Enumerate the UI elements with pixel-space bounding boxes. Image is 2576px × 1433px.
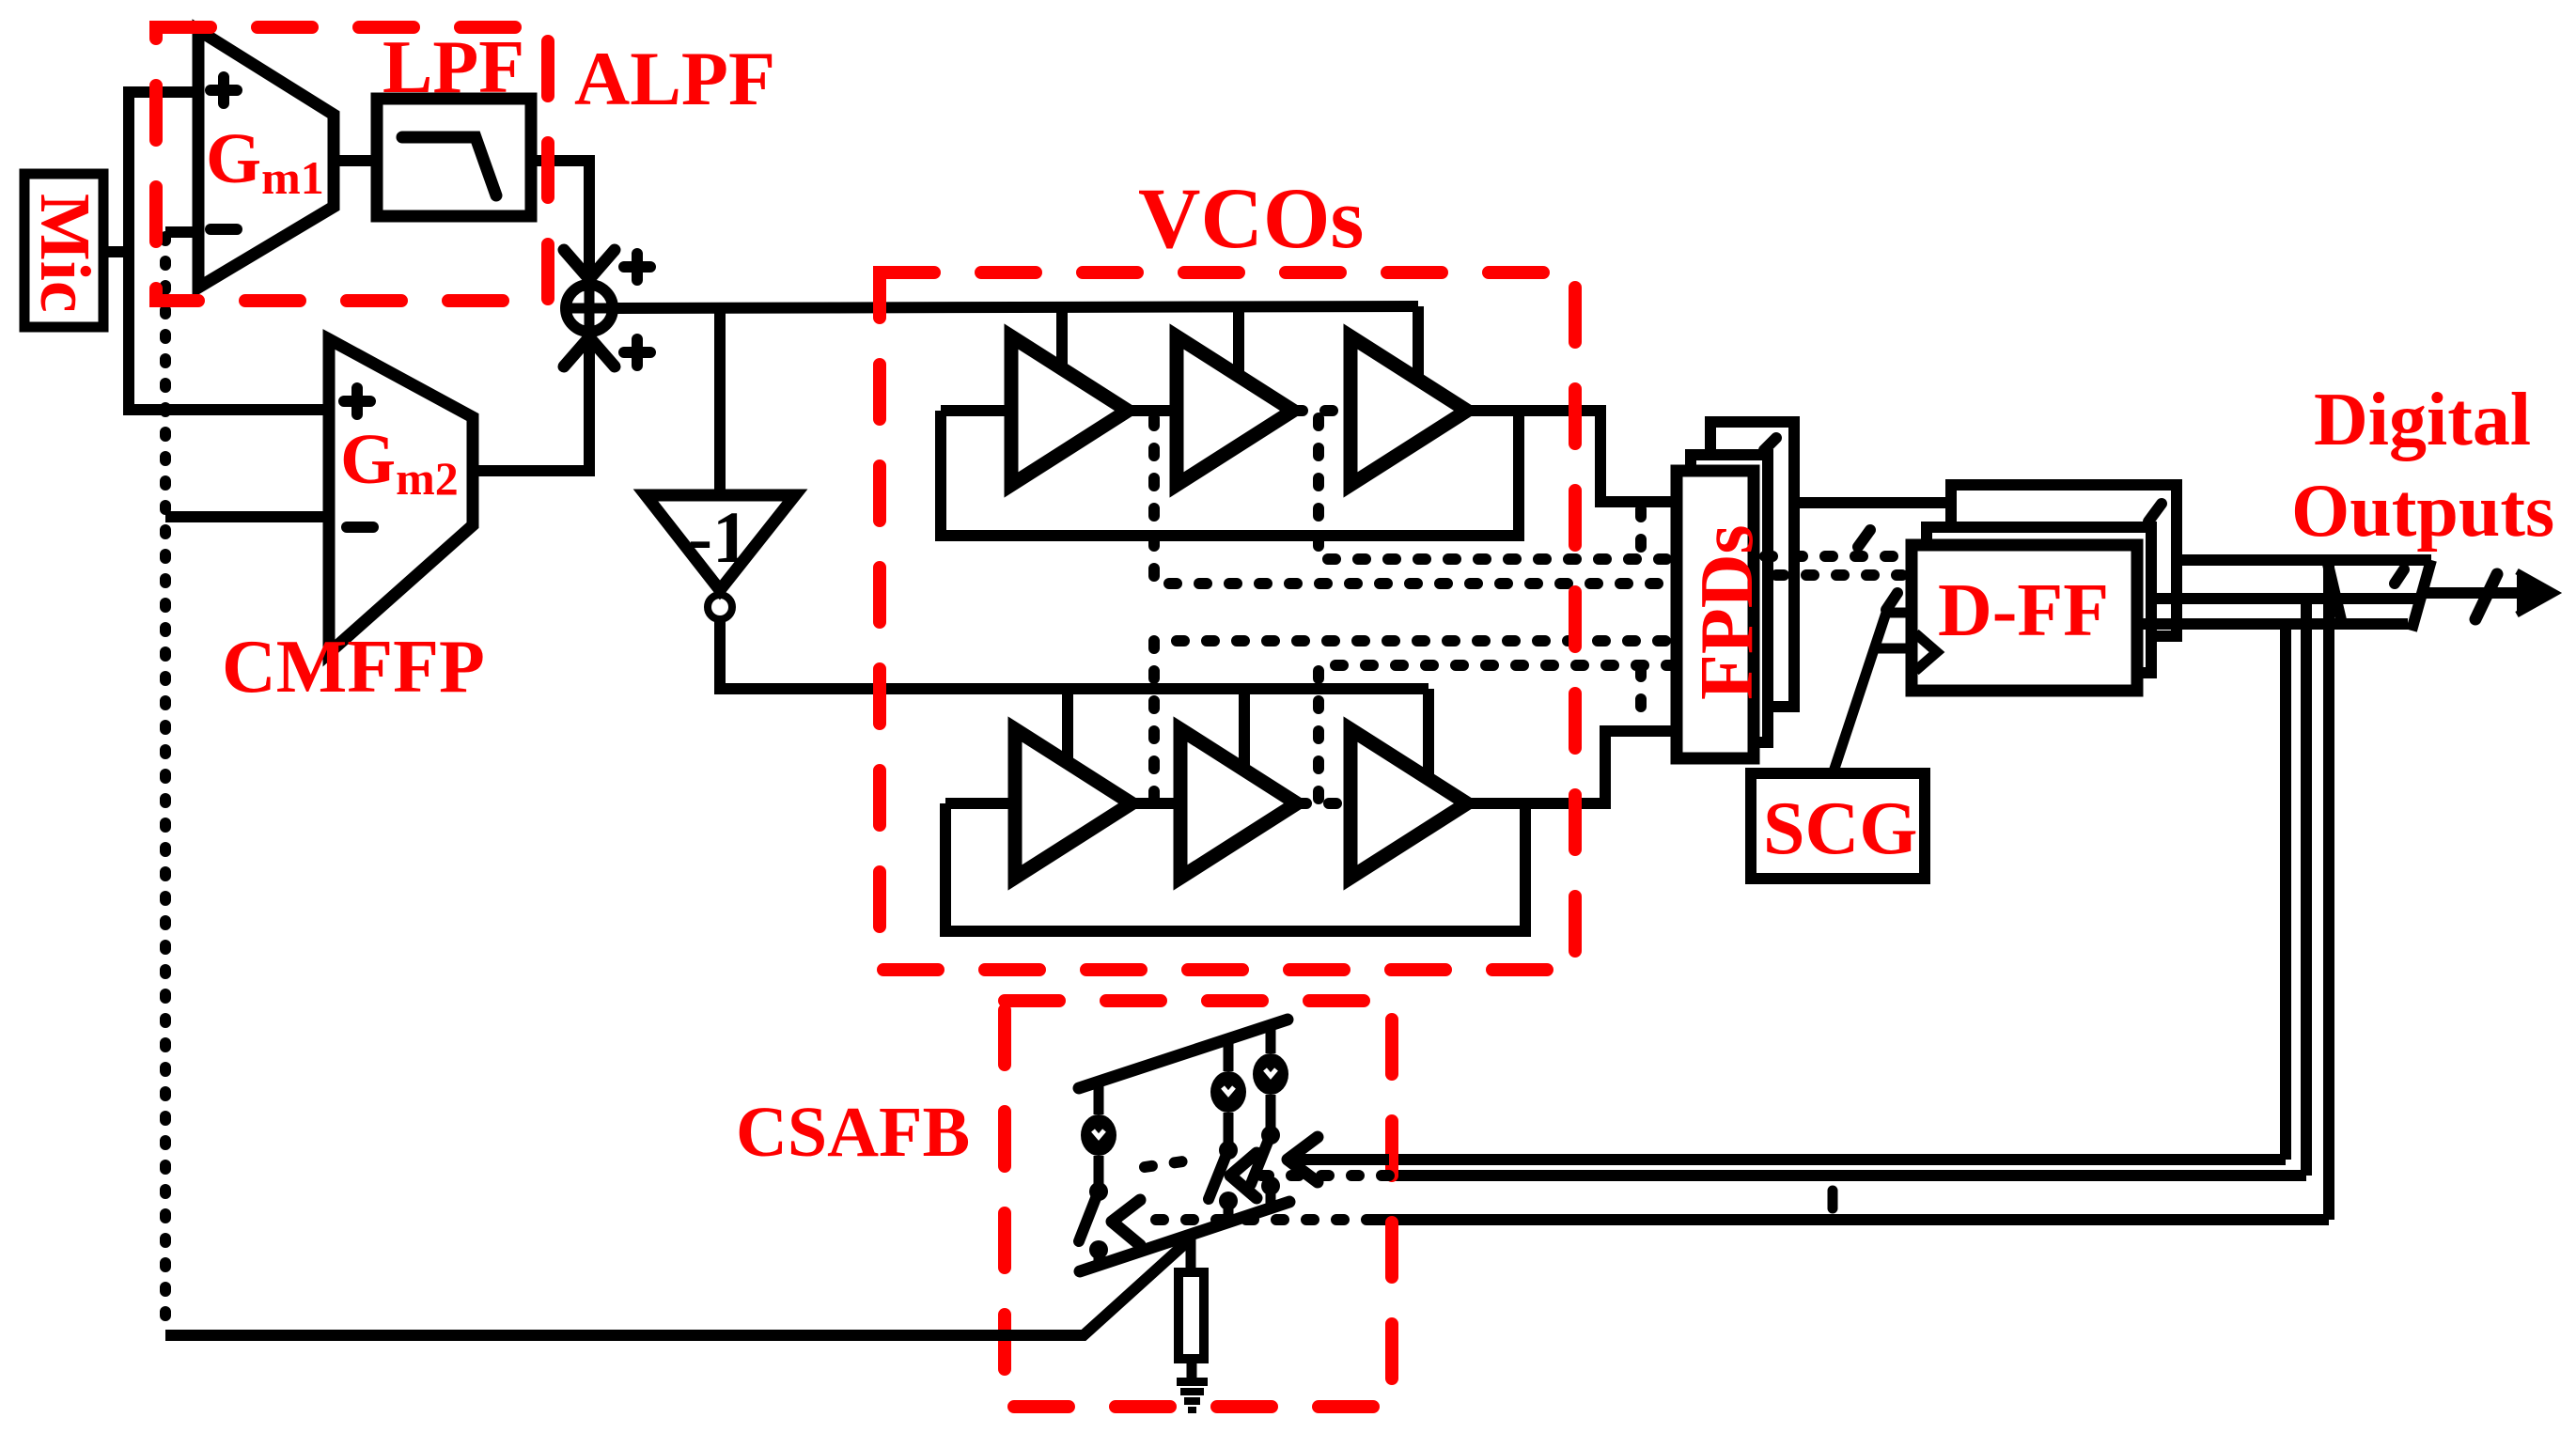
switch S3 lever	[1251, 1142, 1268, 1184]
wire feedback vertical 1	[2280, 624, 2291, 1160]
control arrowhead 3	[1112, 1200, 1140, 1245]
wire feedback vertical 3	[2323, 560, 2334, 1220]
switch S2 lever	[1209, 1157, 1226, 1199]
Gm1 plus pin	[211, 77, 237, 103]
dotted bus FPDs to DFF lower	[1776, 569, 1902, 581]
current source I2	[1210, 1071, 1246, 1113]
wire summer output to VCO	[617, 306, 1418, 308]
current source I1 branch wire	[1094, 1082, 1104, 1266]
wire feedback bottom 3	[1374, 1214, 2329, 1225]
D-FF back box	[1951, 485, 2177, 636]
wire branch to inverter	[714, 307, 726, 495]
resistor R1	[1179, 1272, 1204, 1359]
op-amp Gm2	[329, 339, 473, 653]
switch S3 pivot	[1261, 1126, 1280, 1145]
wire top row output to FPDs	[1467, 411, 1677, 502]
CSAFB dashed box	[1005, 1001, 1392, 1407]
dotted phase tap top row node2	[1319, 418, 1677, 559]
inverter bubble	[708, 595, 732, 619]
svg-text:-1: -1	[688, 496, 749, 578]
dotted connector lower at FPDs	[1635, 669, 1647, 725]
wire DFF back output	[2177, 554, 2431, 566]
switch S1 pivot	[1089, 1182, 1108, 1201]
tick on FPDs stack	[1764, 438, 1776, 450]
inverter -1	[646, 495, 795, 590]
dotted wire lower chain U5-U6	[1299, 798, 1350, 809]
summing node circle	[566, 285, 613, 332]
svg-text:ALPF: ALPF	[574, 36, 775, 121]
stray tick below feedback line 2	[1828, 1191, 1838, 1208]
bus merge right diagonal	[2412, 560, 2431, 631]
wire tap2 top row	[1233, 306, 1244, 376]
wire inverter output	[720, 619, 1429, 689]
wire tap1 top row	[1056, 306, 1068, 368]
summing rail bottom	[1080, 1202, 1289, 1271]
buffer U5 lower row	[1180, 729, 1297, 878]
summing node crosshair	[561, 280, 617, 336]
output arrowhead	[2517, 571, 2555, 615]
wire feedback to Gm inputs	[165, 1238, 1191, 1335]
control dotted line 3	[1143, 1214, 1374, 1225]
wire top row feedback loop	[941, 411, 1519, 536]
svg-text:LPF: LPF	[382, 26, 524, 109]
arrow into summer from top	[564, 250, 615, 279]
current source I1	[1081, 1114, 1116, 1156]
wire SCG clock diagonal	[1834, 613, 1886, 771]
tick on dotted bus lower	[1886, 593, 1897, 610]
wire Gm1 minus input	[165, 226, 198, 238]
current source I2 branch wire	[1224, 1039, 1234, 1223]
Gm1 minus pin	[211, 224, 237, 235]
wire lower row feedback loop	[945, 803, 1525, 931]
control dotted line 2	[1259, 1170, 1389, 1181]
wire lower chain input	[945, 798, 1015, 809]
Mic box	[24, 174, 103, 327]
svg-text:Outputs: Outputs	[2291, 470, 2554, 553]
svg-text:Digital: Digital	[2314, 379, 2531, 461]
switch S3 contact	[1261, 1176, 1280, 1195]
ALPF dashed box	[156, 27, 548, 301]
control arrow solid	[1289, 1154, 1389, 1165]
wire feedback vertical 2	[2301, 599, 2312, 1176]
output arrow shaft	[2423, 587, 2541, 599]
switch S1 lever	[1079, 1198, 1096, 1241]
svg-text:CMFFP: CMFFP	[222, 626, 485, 709]
svg-text:Gm1: Gm1	[206, 119, 324, 204]
LPF response curve	[402, 137, 496, 195]
wire tap1 lower row	[1062, 689, 1073, 761]
wire input bus vertical	[129, 92, 329, 410]
wire Gm2 output	[473, 343, 589, 471]
wire Mic output	[103, 246, 129, 257]
wire lower chain U4-U5	[1132, 798, 1180, 809]
FPDs front box	[1677, 471, 1754, 758]
wire lower row output to FPDs	[1467, 731, 1677, 803]
svg-text:D-FF: D-FF	[1938, 569, 2109, 652]
FPDs back box	[1710, 422, 1794, 707]
tick on dotted bus upper	[1858, 530, 1870, 547]
current source I3 branch wire	[1266, 1025, 1276, 1209]
SCG box	[1751, 773, 1925, 879]
wire DFF middle output	[2151, 593, 2417, 604]
wire Gm2 minus input	[165, 511, 329, 522]
bus merge left diagonal	[2327, 560, 2342, 624]
bus width slash on arrow	[2475, 574, 2497, 619]
Gm2 minus pin	[347, 522, 373, 533]
wire Gm1 output	[334, 155, 377, 166]
wire tap3 lower row	[1423, 689, 1434, 779]
stray dashes	[1145, 1160, 1195, 1167]
wire top chain U1-U2	[1128, 405, 1177, 416]
dotted phase tap top row node1	[1154, 418, 1677, 584]
svg-text:VCOs: VCOs	[1138, 170, 1364, 266]
FPDs middle box	[1691, 455, 1768, 742]
svg-text:FPDs: FPDs	[1686, 524, 1769, 700]
I3 arrow mark	[1265, 1069, 1276, 1076]
svg-text:CSAFB: CSAFB	[736, 1093, 970, 1172]
buffer U3 top row	[1350, 336, 1467, 485]
tick on D-FF stack	[2148, 504, 2162, 522]
arrow into summer from bottom	[564, 337, 615, 366]
dotted bus FPDs to DFF upper	[1765, 551, 1908, 562]
switch S2 contact	[1219, 1192, 1238, 1210]
wire LPF output	[531, 161, 589, 273]
wire resistor top	[1186, 1231, 1196, 1272]
node minus feedback dotted bus	[160, 237, 171, 1335]
I2 arrow mark	[1223, 1087, 1234, 1094]
switch S1 contact	[1089, 1240, 1108, 1259]
buffer U1 top row	[1011, 336, 1128, 485]
wire tap3 top row	[1413, 306, 1424, 380]
Gm2 plus pin	[344, 388, 370, 414]
supply rail top	[1079, 1020, 1288, 1088]
current source I3	[1253, 1053, 1288, 1095]
wire top chain input	[941, 405, 1011, 416]
I1 arrow mark	[1093, 1130, 1104, 1137]
wire tap2 lower row	[1239, 689, 1250, 770]
plus sign lower	[624, 339, 650, 366]
buffer U4 lower row	[1015, 729, 1132, 878]
D-FF front box	[1912, 545, 2137, 691]
ground	[1177, 1378, 1208, 1386]
control arrowhead 2	[1230, 1153, 1257, 1198]
wire clock rung upper	[1884, 608, 1912, 618]
wire feedback bottom 2	[1389, 1170, 2306, 1181]
svg-text:Mic: Mic	[25, 194, 104, 313]
wire resistor to ground	[1187, 1359, 1197, 1379]
dotted phase tap lower row node1	[1154, 641, 1677, 799]
wire FPDs to DFF	[1794, 497, 1951, 508]
svg-text:Gm2: Gm2	[340, 420, 459, 505]
filter LPF box	[377, 99, 531, 216]
op-amp Gm1	[198, 30, 334, 288]
tick near bus merge	[2395, 569, 2404, 584]
wire clock rung lower	[1874, 644, 1912, 654]
D-FF clock wedge	[1915, 633, 1937, 671]
VCOs dashed box	[880, 273, 1575, 970]
svg-text:SCG: SCG	[1763, 787, 1918, 870]
wire DFF front output	[2137, 618, 2408, 630]
D-FF middle box	[1927, 527, 2151, 673]
wire feedback bottom 1	[1289, 1154, 2286, 1165]
buffer U2 top row	[1177, 336, 1293, 485]
plus sign upper	[624, 254, 650, 280]
switch S2 pivot	[1219, 1141, 1238, 1160]
dotted wire top chain U2-U3	[1295, 405, 1350, 416]
dotted phase tap lower row node2	[1319, 665, 1677, 799]
buffer U6 lower row	[1350, 729, 1467, 878]
dotted connector upper at FPDs	[1635, 509, 1647, 558]
